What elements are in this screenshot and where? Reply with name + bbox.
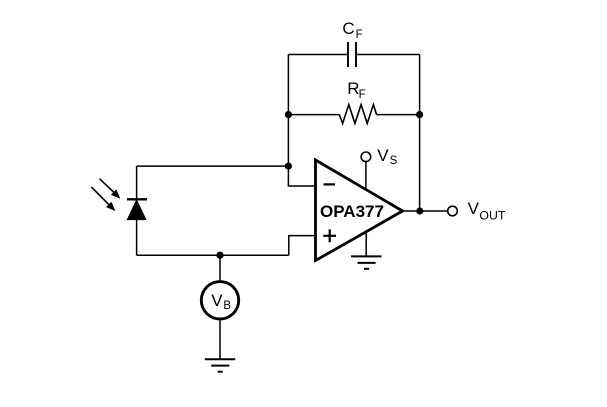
ground (below V_B) [205, 359, 235, 372]
photodiode D1 cathode bar [127, 198, 147, 200]
node: junction R_F left [285, 111, 292, 118]
capacitor C_F plates [348, 42, 356, 67]
light arrow 1 (upper) [100, 179, 121, 199]
svg-text:F: F [356, 29, 363, 41]
wire: V_B tap [219, 255, 221, 280]
label R_F [347, 79, 365, 101]
wire: top feedback horizontal left (to C_F left plate) [288, 54, 348, 56]
op-amp U1 triangle [316, 160, 403, 261]
ground (op-amp) [351, 256, 381, 268]
wire: op-amp ground stub [365, 232, 367, 257]
wire: top feedback horizontal right (from C_F right plate) [356, 54, 420, 56]
svg-text:OPA377: OPA377 [320, 202, 384, 221]
wire: left feedback vertical + inverting input [288, 55, 315, 187]
wire: V_S stub [365, 161, 367, 190]
wire: R_F branch left [288, 114, 339, 116]
svg-text:V: V [211, 291, 223, 310]
label C_F [342, 19, 362, 41]
label V_S [377, 146, 397, 167]
svg-text:V: V [468, 199, 480, 218]
light arrow 2 (lower) [91, 187, 115, 211]
svg-text:F: F [359, 89, 366, 101]
voltage source V_B circle [201, 282, 238, 319]
node: junction output / feedback [416, 207, 423, 214]
photodiode D1 anode triangle [127, 200, 146, 220]
svg-text:V: V [377, 146, 389, 165]
label V_B [211, 291, 231, 312]
terminal V_OUT open circle [448, 206, 458, 216]
wire: R_F branch right [377, 114, 420, 116]
wire: output [403, 210, 448, 212]
wire: V_B to ground [219, 320, 221, 359]
op-amp plus input symbol [323, 229, 336, 242]
terminal V_S open circle [361, 152, 371, 162]
svg-text:OUT: OUT [479, 209, 505, 223]
resistor R_F zigzag [339, 105, 376, 124]
svg-text:B: B [223, 300, 231, 312]
node: junction R_F right [416, 111, 423, 118]
wire: non-inverting input step [289, 236, 316, 256]
svg-text:C: C [342, 19, 354, 38]
op-amp minus input symbol [324, 183, 336, 185]
node: junction inverting input / photodiode [285, 163, 292, 170]
wire: photodiode branch vertical [136, 166, 138, 255]
node: junction V_B tap [216, 252, 223, 259]
label V_OUT [468, 199, 506, 222]
wire: right feedback vertical [419, 55, 421, 212]
svg-text:S: S [390, 155, 398, 167]
wire: photodiode top horizontal [137, 165, 289, 167]
wire: bottom horizontal [137, 254, 289, 256]
